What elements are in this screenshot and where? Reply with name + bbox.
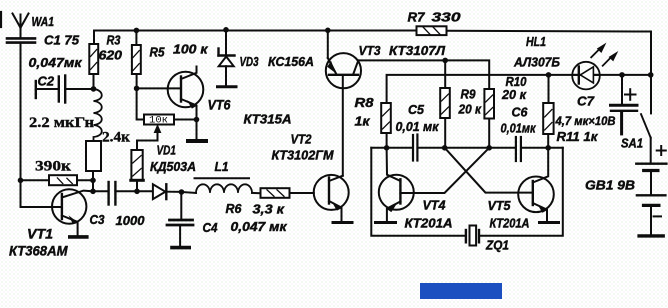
svg-text:R6: R6 [226, 201, 243, 216]
wire: R9 top lead [444, 60, 446, 88]
svg-text:R9: R9 [461, 87, 477, 102]
ground: VT6 emitter [188, 139, 206, 143]
svg-text:330: 330 [432, 10, 462, 25]
antenna WA1 [13, 14, 29, 39]
capacitor C4 [167, 192, 193, 246]
resistor R11 1к [543, 75, 553, 148]
svg-text:VT5: VT5 [488, 198, 512, 213]
node: R11 bottom / VT5 collector [545, 145, 551, 151]
svg-text:ZQ1: ZQ1 [485, 238, 509, 253]
svg-text:1к: 1к [355, 114, 372, 129]
svg-text:С1 75: С1 75 [44, 33, 80, 48]
node: wiper resistor bottom [134, 189, 140, 195]
wire: 2.4к bottom to C3 wire [92, 171, 94, 191]
svg-text:L1: L1 [215, 159, 229, 174]
crystal ZQ1 [466, 226, 479, 246]
node: LED row right corner [648, 72, 654, 78]
diode VD3 КС156А (zener) [218, 30, 237, 87]
svg-text:R3: R3 [107, 33, 122, 48]
resistor R9 20к [440, 88, 450, 148]
svg-text:3,3 к: 3,3 к [253, 202, 286, 217]
node: R10 bottom / X junction [486, 145, 492, 151]
node: 390к left on antenna line [18, 178, 24, 184]
svg-text:R8: R8 [355, 95, 375, 110]
svg-text:4,7 мк×10В: 4,7 мк×10В [555, 114, 616, 128]
svg-text:0,01мк: 0,01мк [501, 121, 537, 136]
svg-text:VT3: VT3 [359, 43, 382, 58]
svg-text:КС156А: КС156А [268, 54, 314, 69]
transistor VT3 КТ3107Л (PNP) [326, 30, 361, 88]
node: collector/C3 junction [90, 189, 96, 195]
node: VT3 emitter on rail [325, 28, 331, 34]
svg-text:КТ368АМ: КТ368АМ [9, 243, 68, 259]
capacitor C1 [7, 38, 35, 42]
diode VD1 КД503А [153, 184, 182, 199]
transistor VT6 КТ315А [137, 67, 204, 140]
svg-text:R7: R7 [408, 10, 426, 25]
node: R11 top on LED row [546, 72, 552, 78]
svg-text:20 к: 20 к [501, 87, 527, 102]
svg-text:HL1: HL1 [526, 34, 546, 49]
node: C2/R3/L junction [91, 86, 97, 92]
svg-text:620: 620 [99, 48, 123, 63]
svg-text:АЛ307Б: АЛ307Б [513, 55, 560, 70]
capacitor C5 [413, 135, 417, 161]
svg-text:100 к: 100 к [173, 42, 209, 57]
trimmer box 10к [144, 115, 197, 125]
ground: C4 [172, 246, 189, 250]
svg-text:0,047мк: 0,047мк [29, 55, 84, 70]
svg-text:0,047 мк: 0,047 мк [231, 219, 288, 234]
ground: VT5 emitter bar [540, 221, 559, 224]
svg-text:1000: 1000 [116, 213, 146, 228]
svg-text:КТ3102ГМ: КТ3102ГМ [272, 148, 335, 163]
node: R8 bottom / VT4 collector [384, 145, 390, 151]
node: VD3 on rail [223, 27, 229, 33]
svg-text:С7: С7 [577, 94, 595, 109]
node: R9/rail junction [442, 58, 448, 64]
capacitor C3 1000 [93, 182, 153, 205]
switch SA1 [641, 114, 651, 162]
LED HL1 АЛ307Б [572, 43, 618, 90]
transistor VT1 КТ368АМ [52, 189, 93, 235]
node: R9 bottom / X junction [442, 145, 448, 151]
svg-text:GB1 9В: GB1 9В [585, 178, 635, 193]
svg-text:390к: 390к [35, 159, 71, 175]
svg-text:КТ3107Л: КТ3107Л [389, 43, 446, 58]
wire: X cross-coupling diagonals [400, 148, 532, 193]
svg-text:VT2: VT2 [291, 132, 313, 147]
svg-text:2.2 мкГн: 2.2 мкГн [29, 115, 94, 131]
svg-text:С2: С2 [38, 74, 55, 89]
resistor R5 100к [132, 30, 144, 120]
svg-text:R11 1к: R11 1к [557, 129, 599, 144]
capacitor C7 4,7мк [611, 75, 638, 134]
svg-text:VT6: VT6 [208, 97, 231, 113]
capacitor C6 [516, 137, 521, 161]
wire: scan edge mark left [0, 12, 2, 27]
svg-text:КД503А: КД503А [150, 159, 196, 174]
svg-text:КТ315А: КТ315А [244, 112, 292, 127]
wire: antenna line down left side [21, 43, 62, 207]
transistor VT5 КТ201А [518, 148, 554, 221]
svg-text:КТ201А: КТ201А [490, 216, 530, 231]
wire: multivibrator bottom loop [371, 148, 563, 236]
ground: VT4 emitter bar [376, 221, 396, 224]
svg-text:0,01 мк: 0,01 мк [396, 119, 440, 134]
svg-text:С3: С3 [90, 212, 106, 227]
svg-text:VT4: VT4 [423, 198, 447, 213]
node: R5 top on rail [134, 28, 140, 34]
node: L1/C4 junction [179, 189, 185, 195]
wire: VT3 collector row to R9/R10 [358, 60, 489, 89]
inductor L1 [182, 178, 261, 193]
wire: VT2 collector to VT3 base [342, 76, 344, 176]
svg-text:КТ201А: КТ201А [405, 216, 453, 231]
svg-text:С5: С5 [408, 102, 425, 117]
capacitor C2 [36, 76, 94, 103]
svg-text:10к: 10к [149, 115, 168, 126]
transistor VT2 КТ3102ГМ [314, 175, 349, 221]
resistor R3 620 [89, 44, 98, 89]
resistor R7 330 [417, 26, 447, 35]
wire: LED row (R8 corner to right corner) [387, 75, 651, 103]
svg-text:WA1: WA1 [32, 14, 55, 29]
resistor 390к [21, 175, 94, 185]
svg-text:R5: R5 [150, 45, 166, 60]
resistor R10 20к [484, 89, 494, 148]
wire: top supply rail [94, 31, 651, 45]
wire: right vertical (rail to switch) [650, 32, 652, 114]
ground: VT1 emitter [70, 235, 87, 239]
node: R5 lead / VT6 base junction [134, 86, 140, 92]
svg-text:VD1: VD1 [157, 143, 177, 158]
svg-text:С4: С4 [203, 220, 219, 235]
battery GB1 9В [636, 146, 666, 236]
svg-text:VT1: VT1 [27, 226, 53, 242]
svg-text:20 к: 20 к [458, 102, 483, 117]
svg-text:2.4к: 2.4к [102, 130, 130, 146]
resistor 2.4к (plain rectangle) [86, 141, 101, 171]
resistor (wiper series) body [131, 150, 144, 191]
node: VT6 emitter / 10к [194, 117, 200, 123]
svg-text:SA1: SA1 [621, 136, 643, 151]
ground: VT2 emitter [333, 221, 352, 224]
transistor VT4 КТ201А [379, 148, 414, 221]
node: C7 top on LED row [619, 72, 625, 78]
node: 390к right end [90, 178, 96, 184]
trimmer wiper arrow [137, 124, 161, 150]
resistor R8 1к [381, 103, 391, 148]
svg-text:С6: С6 [512, 105, 529, 120]
blue bar artifact [420, 283, 502, 299]
svg-text:VD3: VD3 [240, 54, 260, 69]
resistor R6 3,3к [261, 188, 314, 198]
wire: multivibrator coupling row y=148 [371, 147, 563, 149]
inductor 2.2 мкГн [94, 89, 102, 141]
